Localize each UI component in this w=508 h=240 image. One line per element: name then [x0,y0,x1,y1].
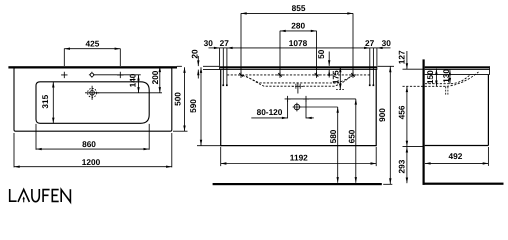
ceramic lip front [220,66,377,69]
svg-text:127: 127 [396,50,406,64]
hidden bowl upper [243,75,354,83]
dim 860 [36,148,149,150]
siphon line 650 level [288,98,356,100]
dim 30 left arrow [209,47,220,49]
tap hole marks front [238,72,356,78]
floor front [213,183,382,185]
ceramic bottom side [425,74,490,76]
basin outline plan [14,67,172,131]
cabinet front [221,70,377,146]
svg-text:860: 860 [82,139,96,149]
dim 456 [406,86,408,146]
dim 590 [200,67,202,145]
dim 200 [159,66,161,92]
dim 20 [197,56,199,66]
svg-text:650: 650 [346,129,356,143]
inner basin plan [36,82,149,124]
cabinet side [425,75,489,146]
ceramic top front [220,66,377,68]
extension top between views [177,65,220,67]
dim 80-120 [288,100,306,118]
hidden drain side [446,87,448,96]
extension lines top [220,13,377,85]
svg-text:27: 27 [365,38,375,48]
svg-text:492: 492 [448,151,462,161]
dim 492 [425,162,489,164]
svg-text:1200: 1200 [82,157,101,167]
dim 130 [449,70,451,84]
svg-text:315: 315 [40,94,50,108]
svg-text:580: 580 [328,129,338,143]
hidden bowl lower [246,76,351,86]
svg-text:900: 900 [377,108,387,122]
tap hole cross left [61,72,67,78]
dim 175 [339,67,341,90]
svg-text:456: 456 [397,105,407,119]
svg-text:150: 150 [425,70,435,84]
svg-text:590: 590 [188,99,198,113]
dim 280 [280,30,317,32]
svg-text:140: 140 [127,73,137,87]
dim 580 [337,107,339,183]
wall side [423,59,425,184]
ceramic top side [425,66,490,68]
dim 900 [389,67,391,185]
svg-text:293: 293 [396,159,406,173]
svg-text:30: 30 [382,38,392,48]
logo A arrow [23,198,25,203]
drain plan [90,91,95,96]
hidden drain front [292,84,304,89]
siphon crosses [285,96,309,102]
dim 1078 line [227,47,370,49]
svg-text:50: 50 [316,49,326,59]
hidden bowl side lower [403,72,479,86]
svg-text:200: 200 [150,70,160,84]
dim 30 right arrow [377,47,391,49]
dim 1200 [14,166,172,168]
dim 127 [406,51,408,69]
dim 425 [64,48,120,50]
dim 855 [241,12,353,14]
extension drain level [97,92,162,94]
svg-text:30: 30 [204,38,214,48]
dim 650 [355,99,357,183]
dim 315 [52,82,54,124]
dim 50 [328,52,330,66]
dim 500 [184,67,186,131]
svg-text:1078: 1078 [289,38,308,48]
hidden rim line [227,74,370,76]
dim 140 [138,75,140,93]
svg-text:27: 27 [220,38,230,48]
dim 1192 [221,163,377,165]
wall line plan [8,66,177,68]
svg-text:1192: 1192 [290,153,308,163]
svg-text:80-120: 80-120 [257,107,283,117]
svg-text:425: 425 [85,38,99,48]
svg-text:175: 175 [331,70,341,84]
floor side [423,183,504,185]
fixing holes front [222,84,224,86]
tap hole cross right [117,72,123,78]
ceramic lip side [425,66,490,74]
svg-text:500: 500 [173,92,183,106]
hidden bowl side upper [425,75,470,83]
tap hole center [90,73,93,76]
leader line tap row [94,74,141,76]
svg-text:130: 130 [441,69,451,83]
siphon line 580 level [300,106,338,108]
position symbol [294,104,300,110]
svg-text:280: 280 [291,20,305,30]
svg-text:855: 855 [292,3,306,13]
dim 150 [435,69,437,86]
svg-text:20: 20 [190,49,200,59]
logo LAUFEN [10,189,71,202]
dim 293 [406,147,408,183]
